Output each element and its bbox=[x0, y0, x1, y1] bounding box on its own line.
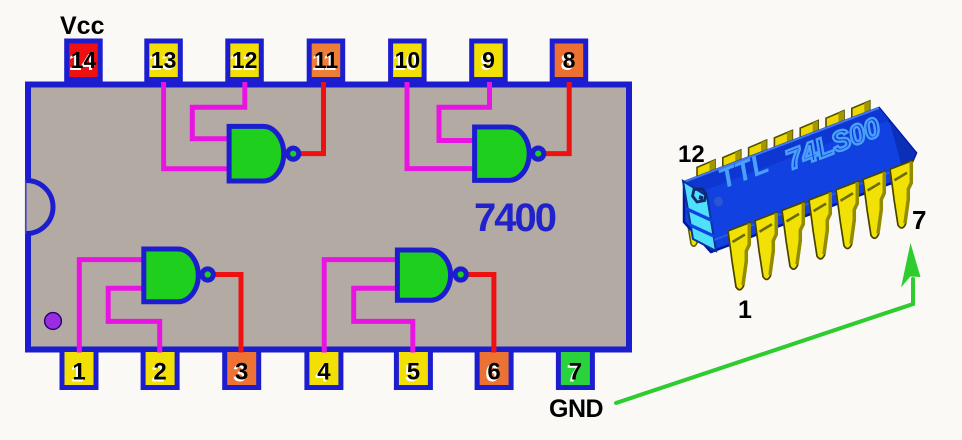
svg-text:11: 11 bbox=[314, 47, 339, 73]
wire gate U1A output to pin3 bbox=[212, 275, 241, 353]
svg-text:9: 9 bbox=[482, 47, 495, 73]
NAND gate U1B (bottom-right) bbox=[397, 250, 466, 300]
wire pin9 to gate U1C input A bbox=[439, 82, 490, 141]
wire gate U1B output to pin6 bbox=[465, 275, 494, 353]
wire pin10 to gate U1C input B bbox=[407, 82, 478, 169]
svg-text:7: 7 bbox=[569, 359, 582, 386]
pin 13 box bbox=[147, 41, 181, 80]
pin 6 box bbox=[477, 350, 511, 388]
wire pin1 to gate U1A input A bbox=[79, 260, 147, 353]
wire gate U1C output to pin8 bbox=[543, 82, 569, 154]
pin 10 box bbox=[391, 41, 425, 80]
index dot on front face bbox=[714, 197, 723, 207]
wire pin5 to gate U1B input B bbox=[354, 288, 413, 352]
mold ridge line on front face bbox=[714, 169, 899, 240]
svg-text:2: 2 bbox=[153, 359, 166, 386]
svg-text:6: 6 bbox=[487, 359, 500, 386]
svg-text:12: 12 bbox=[678, 141, 705, 168]
back-left pin of DIP (behind body) bbox=[687, 218, 698, 246]
pin 9 box bbox=[472, 41, 506, 80]
svg-text:GND: GND bbox=[549, 395, 603, 423]
pin 8 box bbox=[552, 41, 586, 80]
svg-text:10: 10 bbox=[395, 47, 421, 73]
wire gate U1D output to pin11 bbox=[298, 82, 324, 154]
wire pin13 to gate U1D input B bbox=[164, 82, 233, 169]
front row pins bbox=[728, 161, 912, 290]
DIP body silhouette bbox=[684, 108, 916, 252]
svg-text:7400: 7400 bbox=[474, 196, 556, 240]
pin 12 box bbox=[228, 41, 261, 80]
pin-1 marker dot bbox=[45, 313, 62, 330]
wire pin2 to gate U1A input B bbox=[108, 288, 160, 352]
notch (pin-1 end indicator) bbox=[25, 180, 53, 234]
pin 11 box bbox=[309, 41, 343, 80]
svg-text:3: 3 bbox=[235, 359, 248, 386]
back row pin tabs bbox=[697, 101, 870, 180]
svg-text:4: 4 bbox=[317, 359, 331, 386]
pin 4 box bbox=[307, 350, 341, 388]
pin 5 box bbox=[396, 350, 430, 388]
svg-text:1: 1 bbox=[72, 359, 85, 386]
DIP top face strip bbox=[684, 108, 889, 193]
IC body U1 (7400 DIP outline) bbox=[28, 85, 629, 350]
right end facet bbox=[889, 120, 916, 178]
svg-text:1: 1 bbox=[738, 296, 752, 324]
DIP left end face (cyan) with notch bbox=[683, 181, 716, 251]
arrow from GND to DIP pin 7 bbox=[616, 243, 921, 403]
svg-text:8: 8 bbox=[563, 47, 576, 73]
pin 7 box (GND) bbox=[558, 350, 592, 388]
pin 2 box bbox=[143, 350, 177, 388]
pin 1 box bbox=[62, 350, 96, 388]
wire pin4 to gate U1B input A bbox=[324, 260, 400, 353]
label TTL 74LS00 bbox=[714, 105, 885, 200]
top edge highlight bbox=[684, 108, 879, 182]
NAND gate U1A (bottom-left) bbox=[144, 249, 213, 302]
pin 14 box (Vcc) bbox=[67, 41, 101, 80]
3D DIP package drawing (74LS00) bbox=[683, 101, 916, 290]
svg-text:Vcc: Vcc bbox=[60, 12, 105, 40]
wire pin12 to gate U1D input A bbox=[192, 82, 245, 139]
svg-text:7: 7 bbox=[912, 205, 926, 235]
svg-text:13: 13 bbox=[151, 47, 177, 73]
pin 3 box bbox=[225, 350, 259, 388]
svg-text:14: 14 bbox=[71, 47, 97, 73]
svg-text:12: 12 bbox=[232, 47, 258, 73]
svg-text:5: 5 bbox=[407, 359, 420, 386]
NAND gate U1C (top-right) bbox=[475, 127, 544, 180]
NAND gate U1D (top-left) bbox=[229, 126, 299, 181]
